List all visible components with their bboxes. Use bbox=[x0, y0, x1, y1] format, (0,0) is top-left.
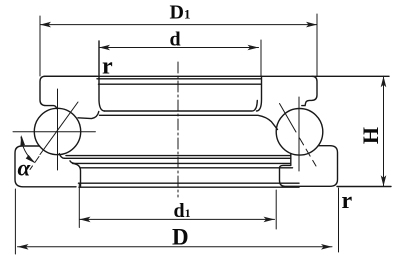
svg-text:α: α bbox=[18, 156, 32, 181]
D right extension line bbox=[338, 188, 340, 252]
bottom washer left piece outline bbox=[15, 146, 76, 187]
bottom washer band bottom line bbox=[79, 186, 299, 188]
center axis line bbox=[177, 62, 179, 197]
right ball contact diagonal (solid) bbox=[280, 104, 297, 133]
left ball contact diagonal (solid) bbox=[40, 102, 78, 155]
bottom washer left inner edge bbox=[73, 163, 81, 187]
top washer band second top line bbox=[97, 78, 261, 80]
bottom washer band line 3 bbox=[79, 182, 300, 184]
D1 right extension line bbox=[316, 14, 318, 76]
right ball vertical centerline bbox=[298, 97, 300, 171]
D dimension line bbox=[18, 246, 333, 248]
bottom washer right piece outline bbox=[280, 146, 338, 187]
top washer band bottom line 1 bbox=[105, 101, 258, 112]
bottom washer band line 1 bbox=[66, 155, 290, 157]
top washer top face line (with H extension to right) bbox=[44, 75, 389, 77]
D1 left extension line bbox=[39, 16, 41, 76]
D1 left arrowhead bbox=[40, 22, 51, 28]
d1 left arrowhead bbox=[80, 217, 91, 223]
svg-text:d: d bbox=[170, 29, 181, 51]
D1 right arrowhead bbox=[306, 22, 317, 28]
top washer left raceway tangent bbox=[78, 112, 99, 119]
right ball contact diagonal (dashed) bbox=[300, 138, 317, 166]
d right arrowhead bbox=[248, 45, 259, 51]
left ball contact diagonal (dashed) bbox=[30, 157, 39, 170]
svg-text:H: H bbox=[358, 127, 383, 144]
H dimension line bbox=[383, 76, 385, 186]
svg-text:r: r bbox=[342, 188, 353, 214]
top washer left piece outline bbox=[40, 76, 97, 108]
alpha arc bottom arrowhead bbox=[26, 155, 36, 163]
D left extension line bbox=[14, 189, 16, 254]
svg-text:D: D bbox=[172, 225, 189, 250]
top washer right piece outline bbox=[257, 76, 262, 111]
left ball bbox=[34, 108, 80, 154]
D right arrowhead bbox=[321, 244, 332, 250]
d dimension line bbox=[99, 47, 259, 49]
bottom washer right groove lip bbox=[290, 154, 292, 166]
svg-text:r: r bbox=[102, 54, 113, 80]
D1 dimension line bbox=[40, 24, 317, 26]
d1 right arrowhead bbox=[264, 217, 275, 223]
alpha angle arc bbox=[21, 137, 34, 162]
d1 dimension line bbox=[80, 218, 275, 220]
alpha arc top arrowhead bbox=[20, 135, 25, 146]
d1 left extension line bbox=[78, 184, 80, 228]
bottom washer band line 2b bbox=[80, 167, 293, 169]
bottom face H extension line bbox=[337, 186, 391, 188]
top washer left bore edge bbox=[99, 41, 105, 111]
d1 right extension line bbox=[275, 190, 277, 229]
D left arrowhead bbox=[18, 244, 29, 250]
top washer band bottom line 2 bbox=[100, 115, 278, 129]
bottom washer band line 1b bbox=[65, 157, 291, 159]
d right extension line bbox=[260, 40, 262, 76]
top washer band chamfer line bbox=[99, 83, 262, 85]
d left arrowhead bbox=[99, 45, 110, 51]
H top arrowhead bbox=[381, 76, 387, 87]
left ball vertical centerline bbox=[57, 89, 59, 170]
bottom washer left groove lip bbox=[59, 154, 64, 159]
H bottom arrowhead bbox=[381, 175, 387, 186]
left ball horizontal centerline bbox=[13, 131, 95, 133]
right ball bbox=[276, 109, 323, 156]
bottom washer band line 2 bbox=[70, 161, 290, 164]
